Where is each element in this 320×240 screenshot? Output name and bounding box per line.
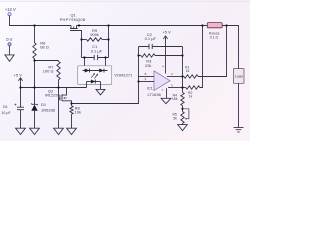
- wire top rail right of Rsense: [222, 26, 238, 69]
- top border line: [0, 0, 250, 3]
- optocoupler U1 VOM1271 box: [78, 66, 112, 85]
- ground earth right: [234, 127, 244, 132]
- svg-text:0.1 µF: 0.1 µF: [145, 36, 157, 41]
- load box: [233, 69, 244, 84]
- svg-text:Load: Load: [235, 75, 243, 79]
- svg-text:VOM1271: VOM1271: [114, 72, 133, 77]
- svg-text:D1: D1: [41, 102, 47, 107]
- wire +12V to rail: [10, 16, 72, 26]
- svg-text:1k: 1k: [189, 94, 193, 98]
- ground C6: [16, 128, 26, 134]
- resistor Rsense: [207, 23, 222, 28]
- port +12V: [8, 13, 11, 16]
- svg-text:PHP79NQ08: PHP79NQ08: [60, 17, 86, 22]
- resistor R2: [183, 26, 203, 90]
- svg-text:100 Ω: 100 Ω: [43, 68, 54, 73]
- resistor R9: [82, 38, 109, 41]
- +5V flag left: [18, 78, 22, 88]
- port 0V: [8, 43, 11, 46]
- svg-text:5k: 5k: [173, 116, 177, 120]
- ground D1: [30, 128, 40, 134]
- pin numbers: [145, 65, 173, 93]
- svg-text:+5 V: +5 V: [14, 73, 23, 78]
- wire node B vertical: [108, 26, 110, 58]
- svg-text:0.1 Ω: 0.1 Ω: [210, 36, 219, 40]
- wire +5V rail left bottom: [21, 87, 87, 89]
- svg-text:1k: 1k: [186, 69, 190, 73]
- svg-text:68 Ω: 68 Ω: [40, 45, 49, 50]
- resistor R6: [33, 26, 36, 61]
- ground opto: [96, 89, 105, 95]
- wire Q2 gate riser: [58, 88, 60, 129]
- wire load to earth: [238, 83, 240, 127]
- svg-text:10 µF: 10 µF: [1, 111, 11, 115]
- svg-text:IRL520: IRL520: [45, 93, 59, 98]
- capacitor C2: [139, 44, 183, 49]
- op-amp IC1 LT1636: [139, 71, 183, 98]
- resistor R7: [57, 61, 60, 88]
- svg-text:0.1 µF: 0.1 µF: [91, 49, 103, 54]
- ground Q2 gate: [54, 128, 64, 134]
- wire R6 node down: [34, 61, 36, 88]
- svg-text:LT1636: LT1636: [148, 92, 162, 97]
- wire top rail mid: [77, 25, 208, 27]
- svg-text:18k: 18k: [172, 97, 178, 101]
- junction dots: [19, 24, 227, 110]
- svg-text:+12 V: +12 V: [5, 7, 16, 12]
- svg-text:0 V: 0 V: [6, 37, 12, 42]
- svg-text:22k: 22k: [145, 63, 151, 68]
- wire Q1 gate to node A: [78, 31, 81, 58]
- wire opto top pins: [85, 58, 106, 71]
- +5V flag mid: [163, 36, 167, 74]
- wire LED leads: [87, 82, 101, 90]
- svg-text:IC1: IC1: [147, 86, 154, 91]
- capacitor C1: [82, 55, 109, 60]
- ground op-amp: [161, 98, 171, 103]
- transistor Q2: [59, 88, 72, 104]
- wire R6 node to R7: [35, 60, 59, 62]
- ground 0V port: [5, 46, 14, 62]
- svg-text:+5 V: +5 V: [162, 30, 171, 35]
- svg-text:C6: C6: [3, 105, 8, 109]
- transistor Q1: [70, 26, 78, 31]
- resistor R1: [183, 26, 227, 79]
- resistor R4: [181, 92, 184, 108]
- wire Q2 source to op-amp: [72, 47, 139, 104]
- resistor R3: [139, 54, 183, 57]
- zener diode D1: [31, 88, 38, 129]
- svg-text:10k: 10k: [75, 109, 81, 114]
- ground R5: [178, 125, 188, 131]
- resistor R8: [70, 104, 73, 129]
- ground R8: [67, 128, 77, 134]
- capacitor C6: [14, 88, 24, 129]
- svg-text:900k: 900k: [90, 32, 99, 37]
- trimmer R5: [181, 109, 189, 125]
- wire bus B vertical: [182, 47, 184, 93]
- svg-text:1N5338: 1N5338: [41, 108, 56, 113]
